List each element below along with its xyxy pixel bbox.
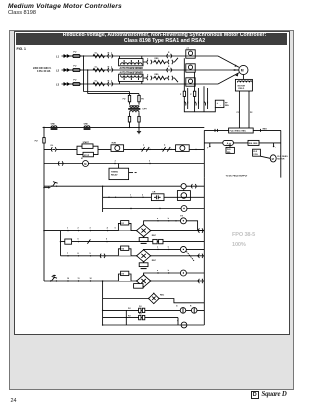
autotransformer label (120, 67, 144, 75)
coil rung8a (180, 246, 204, 260)
bus arrow tap (43, 187, 51, 189)
bottom rung a (102, 310, 204, 312)
rectifier diamond 3 (136, 274, 151, 287)
svg-text:M: M (272, 157, 274, 161)
svg-text:RES: RES (263, 129, 268, 131)
left control bus (43, 127, 45, 281)
svg-text:S: S (147, 58, 149, 60)
fuse FU1 (72, 52, 82, 58)
svg-text:STOP: STOP (84, 155, 90, 157)
OL heater L2 (93, 68, 105, 71)
svg-text:4: 4 (107, 227, 109, 230)
resistor start lower (154, 76, 165, 79)
svg-text:a: a (157, 218, 159, 220)
CT 3 (186, 78, 195, 86)
coil rung6a (180, 215, 186, 223)
contact S upper (147, 60, 152, 64)
svg-text:R: R (190, 306, 192, 308)
wire start branch lower (143, 78, 178, 82)
contact R L1 (166, 54, 172, 58)
supply label 2300V 3PH 60HZ (33, 67, 52, 73)
svg-text:L3: L3 (56, 83, 60, 87)
rung 7 wire (60, 241, 205, 243)
svg-text:TIMING: TIMING (111, 172, 118, 174)
rung 1 wire (44, 148, 204, 150)
svg-text:OL: OL (50, 145, 54, 147)
figure white area (14, 31, 290, 335)
OL heater L3 (93, 82, 105, 85)
coil M rung2 (81, 158, 151, 167)
CPT fuse a (123, 92, 131, 102)
disconnect DS1 (63, 55, 71, 58)
svg-text:L1: L1 (56, 55, 60, 59)
svg-text:3: 3 (90, 228, 91, 230)
svg-text:RUN: RUN (112, 143, 117, 145)
contact M L2 (107, 68, 113, 72)
rung 4 wire (102, 185, 204, 198)
rung 5 wire (103, 208, 205, 209)
svg-text:1: 1 (111, 52, 112, 54)
svg-text:G: G (176, 306, 178, 308)
SquareD logo box (251, 391, 259, 399)
control fuse FU (35, 138, 46, 143)
OL contact rung1 (50, 145, 56, 152)
start-stop parallel block (77, 141, 98, 157)
autotransformer winding 1 (119, 56, 143, 66)
contact S lower (147, 76, 152, 80)
svg-text:2: 2 (78, 228, 79, 230)
CPT secondary fuses (128, 112, 140, 128)
OL heater L1 (93, 54, 105, 57)
disconnect DS2 (63, 69, 71, 72)
wire L3 main line (62, 83, 197, 85)
FPO watermark (232, 232, 255, 238)
svg-text:3 PH. 60 HZ.: 3 PH. 60 HZ. (37, 70, 51, 73)
contact a rung1 (140, 144, 150, 151)
svg-text:b: b (164, 144, 166, 146)
disconnect DS3 (63, 83, 71, 86)
coil rung9a (180, 270, 204, 276)
PF relay box (184, 100, 229, 112)
rectifier diamond 1 (136, 224, 157, 237)
svg-text:b: b (168, 246, 170, 248)
branch 8a wire (144, 249, 181, 250)
wire L1 to motor (196, 56, 239, 67)
svg-text:M: M (108, 66, 110, 68)
fig label (17, 47, 26, 51)
svg-text:FU: FU (123, 99, 126, 101)
svg-text:REC: REC (152, 260, 157, 262)
svg-text:FU: FU (128, 315, 131, 317)
fuse FU3 (72, 80, 82, 86)
svg-text:TO DC FIELD SUPPLY: TO DC FIELD SUPPLY (226, 175, 248, 177)
svg-text:FU: FU (139, 313, 142, 315)
svg-text:S: S (147, 74, 149, 76)
branch 9a wire (144, 272, 181, 275)
grd res box (226, 143, 234, 154)
field contactor box (253, 149, 261, 156)
node L3 (56, 83, 60, 87)
svg-text:5: 5 (115, 228, 116, 230)
svg-text:5: 5 (78, 239, 79, 241)
motor field box (235, 75, 252, 91)
fuse pair bottom a (139, 308, 145, 312)
svg-text:GRD: GRD (51, 124, 56, 126)
pilot light 1 (111, 143, 124, 152)
discharge res box (248, 140, 259, 145)
svg-text:2: 2 (111, 66, 112, 68)
bottom rung c (102, 324, 204, 326)
svg-text:CPT: CPT (142, 108, 147, 110)
field rheo res box (229, 128, 268, 133)
contact rung2 (58, 161, 63, 165)
bottom feeder (103, 281, 149, 325)
fuse pair bottom b (139, 315, 145, 319)
svg-text:-: - (220, 104, 221, 107)
X block rung8 (118, 246, 131, 256)
svg-text:FU: FU (139, 306, 142, 308)
rung9 tail wire (151, 280, 205, 281)
PT symbol 2 (84, 124, 91, 130)
schematic svg (14, 45, 289, 334)
contact block rung4 (151, 192, 164, 201)
svg-text:F: F (180, 94, 182, 96)
wire L2 main line (62, 69, 239, 71)
coil box below diamond1 (139, 237, 148, 244)
contact M L3 (107, 82, 113, 86)
svg-text:11: 11 (78, 278, 80, 280)
svg-text:FU: FU (35, 141, 38, 143)
svg-text:3: 3 (111, 80, 112, 82)
contact rung8 (100, 254, 105, 258)
svg-text:8: 8 (78, 253, 79, 255)
rung 3 wire (44, 185, 204, 187)
bottom top wire (159, 299, 204, 303)
svg-text:F: F (190, 94, 192, 96)
branch 6a wire (144, 220, 205, 231)
lamp R (191, 308, 197, 314)
svg-text:12: 12 (90, 278, 92, 280)
svg-text:REL: REL (225, 105, 230, 107)
svg-text:FX: FX (180, 215, 183, 217)
svg-text:6: 6 (106, 239, 107, 241)
CPT transformer (128, 102, 147, 112)
svg-text:7: 7 (67, 253, 68, 255)
sub rail 102 (102, 186, 104, 212)
X block rung6 (118, 221, 131, 231)
ground at CPT (137, 127, 141, 133)
relay box below rung3 (177, 189, 190, 201)
header class (8, 10, 36, 16)
svg-text:-: - (275, 145, 276, 149)
svg-text:V: V (177, 320, 179, 322)
switch on rung3 (51, 182, 58, 187)
lamp bottom c (181, 322, 187, 328)
CT fuse a (180, 91, 186, 96)
svg-text:RES: RES (155, 58, 160, 60)
resistor start upper (154, 60, 165, 63)
wire field lead 1 (237, 91, 241, 131)
svg-text:a: a (157, 246, 159, 248)
CT 2 (186, 64, 195, 72)
svg-text:FU: FU (73, 66, 76, 68)
svg-text:FU: FU (141, 99, 144, 101)
outer gray box (9, 30, 294, 390)
svg-text:L2: L2 (56, 69, 60, 73)
svg-text:REC: REC (152, 235, 157, 237)
field panel left rail (203, 130, 205, 177)
svg-text:3: 3 (149, 161, 150, 163)
wire L1 main line (62, 55, 197, 57)
rung 2 wire (44, 163, 204, 165)
field panel top wire (204, 129, 280, 131)
contact R L2 (166, 68, 172, 72)
contact M L1 (107, 54, 113, 58)
CT secondary verticals (184, 58, 207, 109)
CT fuse b (190, 91, 195, 96)
pilot circle rung3 (181, 184, 196, 189)
field ammeter (223, 140, 234, 145)
contact lower 2 (168, 76, 173, 80)
node minus (273, 143, 276, 149)
rail contact branch6a (198, 228, 203, 232)
wire start branch upper (143, 58, 178, 62)
svg-text:R: R (168, 52, 170, 54)
svg-text:M: M (84, 162, 86, 166)
svg-text:START: START (83, 141, 90, 144)
CPT fuse b (138, 94, 145, 102)
rheostat motor (260, 155, 288, 162)
svg-text:FU: FU (73, 52, 76, 54)
contact b rung1 (161, 144, 171, 151)
svg-text:2: 2 (115, 161, 116, 163)
svg-text:FLD. RHEO. RES.: FLD. RHEO. RES. (230, 131, 247, 133)
component labels power lines (95, 48, 190, 83)
wire field lead 2 (248, 91, 253, 131)
svg-text:F2: F2 (250, 112, 253, 114)
svg-text:FU: FU (73, 80, 76, 82)
wire L3 to motor (196, 73, 239, 84)
svg-text:b: b (168, 270, 170, 272)
svg-text:DIS. RES: DIS. RES (249, 143, 258, 145)
svg-text:PF: PF (225, 102, 228, 104)
svg-text:M: M (241, 69, 244, 73)
coil box below diamond3 (134, 284, 143, 289)
title bar (16, 33, 287, 46)
control bus wire (43, 126, 205, 128)
svg-text:A: A (227, 141, 229, 145)
svg-text:a: a (143, 144, 145, 146)
fuse FU2 (72, 66, 82, 72)
svg-text:RELAY: RELAY (111, 174, 118, 177)
node plus (207, 143, 211, 150)
motor M (239, 65, 248, 74)
field panel mid wire (204, 142, 280, 144)
svg-text:b: b (168, 218, 170, 220)
X block rung9 (118, 271, 131, 281)
CT 1 (186, 50, 195, 58)
svg-text:CR: CR (152, 192, 155, 194)
page number (11, 398, 17, 404)
contact upper 2 (168, 60, 173, 64)
timer box TR (109, 164, 137, 180)
lamp G (180, 308, 186, 314)
sub rail 60 (60, 231, 62, 256)
wire CPT tap B (87, 69, 139, 93)
pilot light 2 (176, 145, 197, 152)
svg-text:+: + (207, 147, 209, 150)
junction tick labels (67, 161, 170, 316)
control switch rung9 (50, 275, 57, 282)
svg-text:1: 1 (130, 194, 131, 196)
bottom cluster inner vertical (126, 306, 192, 325)
wire L2 to motor (233, 69, 239, 71)
svg-text:2: 2 (142, 194, 143, 196)
rung 6 wire (43, 230, 137, 232)
svg-text:1: 1 (67, 228, 68, 230)
svg-text:FU: FU (128, 308, 131, 310)
node L1 (56, 55, 60, 59)
coil box below diamond2 (139, 262, 148, 269)
rung 8 wire (61, 255, 137, 256)
svg-text:RES: RES (155, 74, 160, 76)
field panel right rail (280, 130, 282, 177)
bottom rung b (103, 318, 178, 325)
svg-text:FIELD: FIELD (238, 88, 244, 90)
rectifier diamond 2 (136, 249, 157, 262)
svg-text:9: 9 (90, 253, 91, 255)
node L2 (56, 69, 60, 73)
rung6 tail wire (151, 230, 205, 231)
svg-text:GRD: GRD (84, 124, 89, 126)
svg-text:M: M (108, 52, 110, 54)
SquareD logo script text (262, 391, 287, 398)
relay contact hooks (184, 102, 207, 106)
right control rail (203, 178, 205, 325)
contact box rung7 (65, 239, 91, 244)
coil with dot rung5 (181, 206, 187, 212)
svg-text:10: 10 (67, 278, 69, 280)
svg-text:REC: REC (160, 294, 165, 296)
field top ticks (215, 129, 261, 132)
rung8 tail wire (151, 255, 205, 256)
rung 9 wire (44, 280, 137, 282)
small rects rung7 (153, 239, 163, 243)
wire CPT tap A (83, 55, 130, 91)
rail contact branch8a (198, 254, 203, 258)
svg-text:a: a (157, 270, 159, 272)
svg-text:AUTO TRANSFORMER: AUTO TRANSFORMER (120, 67, 144, 70)
header title (8, 3, 122, 10)
autotransformer winding 2 (119, 74, 143, 84)
svg-text:M: M (108, 80, 110, 82)
svg-text:MOTOR: MOTOR (277, 158, 285, 160)
svg-text:CON: CON (253, 154, 258, 156)
svg-text:M: M (81, 158, 83, 160)
PT symbol 1 (51, 124, 58, 130)
rectifier diamond 4 (148, 293, 165, 304)
svg-text:R: R (168, 66, 170, 68)
rail contact branch9a (198, 279, 203, 283)
